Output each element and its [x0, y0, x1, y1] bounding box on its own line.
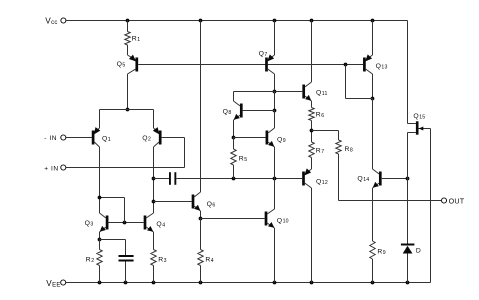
svg-text:+ IN: + IN — [44, 165, 58, 172]
svg-text:Q12: Q12 — [316, 178, 328, 185]
svg-text:Q8: Q8 — [223, 108, 232, 115]
svg-text:D: D — [416, 248, 421, 255]
svg-text:R6: R6 — [316, 112, 325, 119]
svg-text:Q6: Q6 — [207, 201, 216, 208]
svg-text:Q2: Q2 — [142, 135, 151, 142]
svg-text:Q9: Q9 — [277, 137, 286, 144]
svg-text:Q3: Q3 — [85, 220, 94, 227]
svg-text:R1: R1 — [132, 36, 141, 43]
svg-text:R9: R9 — [377, 248, 386, 255]
svg-text:R5: R5 — [239, 156, 248, 163]
svg-text:Q11: Q11 — [316, 90, 328, 97]
svg-text:R4: R4 — [205, 257, 214, 264]
svg-text:Q7: Q7 — [259, 51, 268, 58]
svg-text:R3: R3 — [158, 257, 167, 264]
svg-text:Q15: Q15 — [413, 113, 425, 120]
svg-text:Q13: Q13 — [376, 63, 388, 70]
svg-text:- IN: - IN — [44, 135, 57, 142]
svg-text:Q14: Q14 — [357, 175, 369, 182]
svg-text:Q10: Q10 — [277, 217, 289, 224]
svg-text:Q1: Q1 — [102, 136, 111, 143]
svg-text:OUT: OUT — [449, 197, 465, 206]
svg-text:Q5: Q5 — [117, 61, 126, 68]
svg-text:R7: R7 — [316, 148, 325, 155]
svg-text:R2: R2 — [86, 257, 95, 264]
svg-text:R8: R8 — [345, 146, 354, 153]
svg-text:Q4: Q4 — [156, 221, 165, 228]
